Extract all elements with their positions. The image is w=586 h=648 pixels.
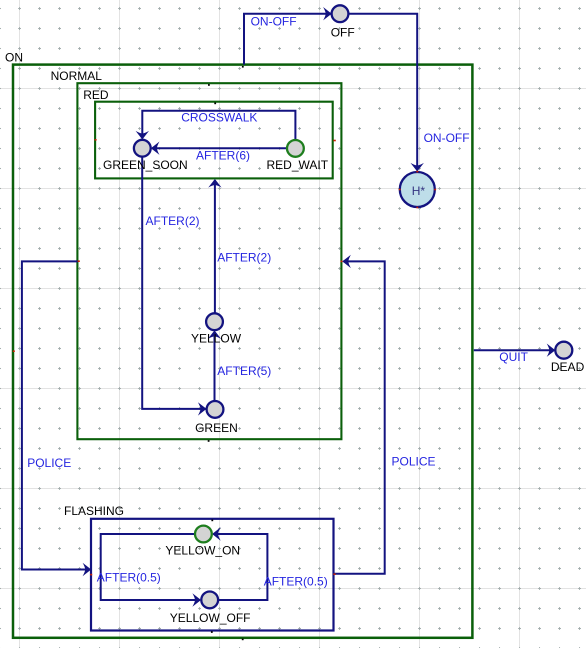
svg-text:YELLOW: YELLOW — [191, 331, 242, 345]
state box NORMAL — [77, 83, 341, 439]
state GREEN_SOON — [134, 140, 151, 157]
svg-text:ON: ON — [5, 51, 23, 65]
red attachment markers — [13, 139, 436, 575]
state YELLOW_OFF — [201, 592, 218, 609]
transition POLICE FLASHING to NORMAL wire — [334, 261, 385, 573]
svg-text:YELLOW_ON: YELLOW_ON — [165, 544, 240, 558]
node marker NORMAL left attach — [78, 260, 80, 262]
arrowhead into YELLOW_OFF left — [192, 593, 201, 606]
history junction H* — [400, 172, 435, 207]
transition POLICE NORMAL to FLASHING wire — [22, 261, 90, 569]
transition QUIT wire — [474, 349, 554, 351]
arrowhead into YELLOW bottom — [208, 330, 221, 339]
node marker H* top port — [416, 171, 418, 173]
arrowhead into OFF — [323, 7, 332, 20]
state YELLOW — [206, 313, 223, 330]
svg-text:POLICE: POLICE — [27, 456, 71, 470]
handle ON bottom center — [242, 639, 244, 641]
svg-text:DEAD: DEAD — [551, 360, 585, 374]
state GREEN — [207, 401, 224, 418]
svg-text:AFTER(2): AFTER(2) — [217, 251, 271, 265]
node marker RED right attach — [333, 140, 335, 142]
arrowhead into NORMAL right — [342, 255, 351, 268]
svg-text:FLASHING: FLASHING — [64, 504, 124, 518]
transition AFTER(6) wire — [152, 147, 286, 149]
transition CROSSWALK wire — [142, 111, 295, 140]
state box ON — [13, 65, 472, 638]
svg-text:YELLOW_OFF: YELLOW_OFF — [170, 611, 251, 625]
arrowhead into GREEN_SOON right — [151, 142, 160, 155]
svg-text:ON-OFF: ON-OFF — [424, 131, 470, 145]
svg-text:GREEN: GREEN — [195, 421, 238, 435]
svg-text:AFTER(2): AFTER(2) — [146, 214, 200, 228]
arrowhead into YELLOW_ON right — [212, 527, 221, 540]
box handle dots (black) — [208, 66, 244, 640]
transition AFTER(0.5) YELLOW_OFF to YELLOW_ON wire — [213, 534, 267, 600]
svg-text:POLICE: POLICE — [392, 454, 436, 468]
svg-text:GREEN_SOON: GREEN_SOON — [103, 158, 188, 172]
svg-text:QUIT: QUIT — [499, 350, 528, 364]
handle FLASHING top center — [211, 520, 213, 522]
handle NORMAL top center — [208, 84, 210, 86]
arrowhead into DEAD — [547, 344, 556, 357]
handle NORMAL bottom center — [208, 440, 210, 442]
handle FLASHING bottom center — [211, 631, 213, 633]
svg-text:H*: H* — [412, 184, 426, 198]
node marker H* bottom port — [416, 207, 418, 209]
arrowhead into RED box bottom — [208, 179, 221, 188]
svg-text:AFTER(5): AFTER(5) — [217, 364, 271, 378]
transition ON-OFF (OFF to H*) wire — [349, 14, 417, 171]
transition AFTER(5) GREEN to YELLOW wire — [214, 331, 216, 400]
node marker FLASHING left attach — [90, 574, 92, 576]
svg-text:AFTER(6): AFTER(6) — [196, 148, 250, 162]
svg-text:RED_WAIT: RED_WAIT — [267, 158, 329, 172]
svg-text:CROSSWALK: CROSSWALK — [181, 111, 257, 125]
node marker ON left attach — [13, 350, 15, 352]
node marker FLASHING right attach — [333, 573, 335, 575]
arrowheads — [83, 7, 556, 607]
transition AFTER(0.5) YELLOW_ON to YELLOW_OFF wire — [101, 534, 200, 600]
svg-text:OFF: OFF — [331, 26, 355, 40]
handle ON top center — [242, 66, 244, 68]
state DEAD — [555, 342, 572, 359]
transition AFTER(2) GREEN_SOON to GREEN wire — [142, 157, 205, 409]
node marker NORMAL right attach — [341, 261, 343, 263]
node marker H* right port — [434, 189, 436, 191]
state box RED — [95, 102, 333, 179]
svg-text:AFTER(0.5): AFTER(0.5) — [97, 571, 161, 585]
state RED_WAIT — [287, 140, 304, 157]
svg-text:AFTER(0.5): AFTER(0.5) — [264, 575, 328, 589]
node marker RED left attach — [95, 139, 97, 141]
arrowhead into GREEN — [198, 402, 207, 415]
transition ON-OFF (ON to OFF) wire — [244, 14, 331, 65]
state YELLOW_ON — [195, 526, 212, 543]
handle RED top center — [214, 103, 216, 105]
svg-text:RED: RED — [83, 88, 109, 102]
svg-text:ON-OFF: ON-OFF — [251, 15, 297, 29]
svg-text:NORMAL: NORMAL — [51, 69, 103, 83]
arrowhead into H* — [411, 163, 424, 172]
transition AFTER(2) YELLOW to RED wire — [214, 180, 216, 313]
state box FLASHING — [91, 519, 334, 631]
arrowhead into GREEN_SOON top — [136, 131, 149, 140]
node marker H* left port — [399, 189, 401, 191]
state OFF — [332, 5, 349, 22]
arrowhead into FLASHING left — [83, 563, 92, 576]
